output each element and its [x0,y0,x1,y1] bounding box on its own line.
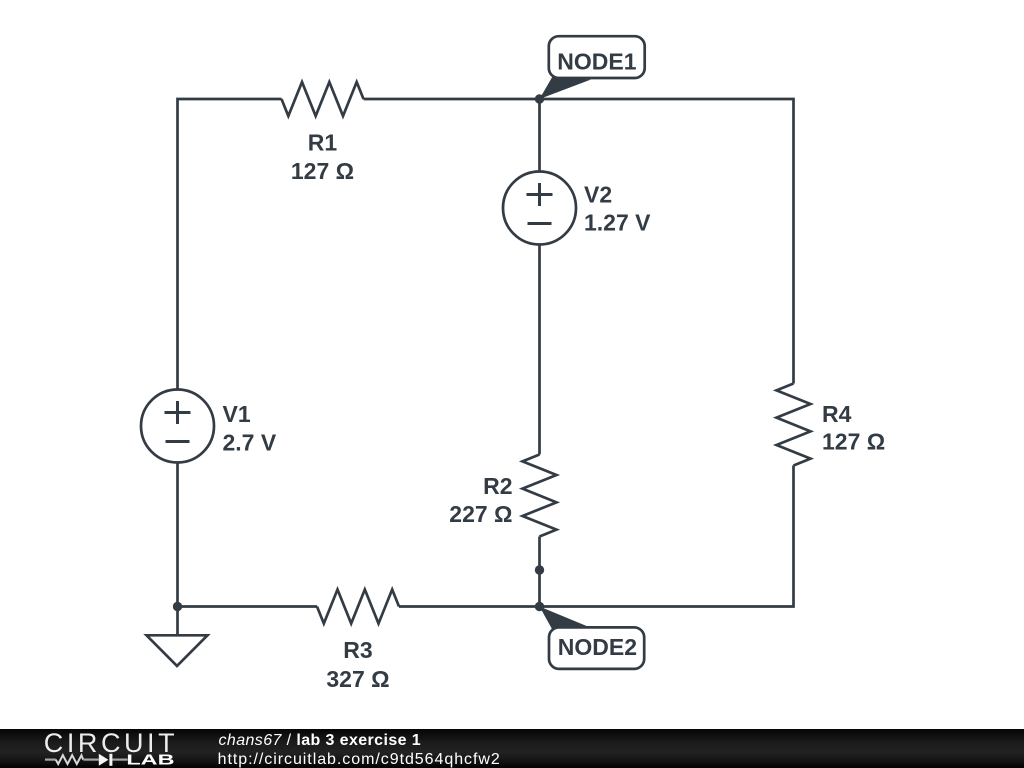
svg-text:R3: R3 [343,637,372,663]
svg-text:R4: R4 [822,401,852,427]
svg-text:V1: V1 [223,401,251,427]
svg-text:http://circuitlab.com/c9td564q: http://circuitlab.com/c9td564qhcfw2 [218,751,501,768]
svg-text:1.27 V: 1.27 V [584,210,651,236]
svg-text:R1: R1 [308,130,338,156]
svg-text:NODE1: NODE1 [557,49,636,75]
svg-text:V2: V2 [584,182,612,208]
svg-text:R2: R2 [483,473,512,499]
svg-text:chans67 / lab 3 exercise 1: chans67 / lab 3 exercise 1 [219,732,422,749]
svg-text:127 Ω: 127 Ω [822,429,885,455]
svg-text:2.7 V: 2.7 V [223,430,277,456]
svg-text:227 Ω: 227 Ω [449,501,512,527]
svg-text:327 Ω: 327 Ω [326,666,389,692]
svg-text:127 Ω: 127 Ω [291,158,354,184]
svg-text:LAB: LAB [126,751,174,768]
svg-text:NODE2: NODE2 [558,634,637,660]
